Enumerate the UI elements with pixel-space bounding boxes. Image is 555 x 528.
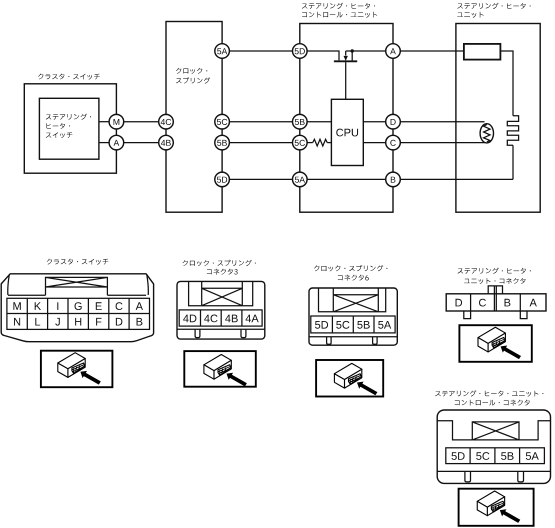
cluster pin grid — [7, 298, 150, 329]
cluster switch box — [24, 84, 116, 173]
label control-unit line1 — [302, 3, 375, 9]
wire 5D to 5A — [229, 178, 293, 180]
steering heater switch box — [39, 98, 99, 159]
clock connector6 icon — [334, 363, 377, 395]
control connector pin grid — [446, 448, 545, 464]
label control conn line2 — [455, 400, 530, 406]
conn3 pin 4C — [204, 315, 217, 323]
heater connector bottom tabs — [464, 311, 527, 319]
clock connector3 bottom band — [177, 329, 265, 337]
label heater-unit line2 — [457, 12, 484, 18]
cluster connector icon — [58, 353, 101, 385]
wire D to thermistor — [400, 121, 485, 123]
cluster pin J — [55, 318, 60, 326]
heater connector top tab — [488, 286, 502, 294]
wire 5B to CPU — [307, 121, 332, 123]
cluster pin K — [35, 302, 41, 310]
conn6 pin 5B — [357, 321, 370, 329]
cluster pin A — [136, 302, 143, 310]
transistor Q1 — [334, 51, 357, 61]
cluster pin H — [75, 318, 81, 326]
cluster connector body — [1, 274, 153, 342]
heater connector icon box — [459, 325, 531, 362]
clock connector6 icon box — [316, 360, 383, 397]
control conn pin 5B — [501, 452, 514, 460]
label heater conn line1 — [458, 268, 531, 274]
wire 5B to 5C — [229, 142, 293, 144]
heater connector icon — [478, 327, 521, 359]
cluster pin N — [14, 318, 20, 326]
wire switch to M — [99, 121, 110, 123]
cluster pin I — [57, 302, 58, 310]
conn6 pin 5D — [315, 321, 328, 329]
wire resistor to element — [500, 51, 513, 116]
cluster pin C — [116, 302, 123, 310]
wire CPU to D — [363, 121, 386, 123]
clock spring box — [166, 22, 222, 213]
resistor R1 — [313, 139, 328, 146]
label control conn line1 — [435, 390, 543, 396]
label clock conn6 line2 — [338, 275, 369, 281]
pin C control — [386, 135, 401, 150]
clock connector6 pin grid — [311, 316, 395, 333]
clock connector6 body — [309, 288, 397, 345]
control conn pin 5A — [526, 452, 539, 460]
pin 5D control — [293, 44, 308, 59]
cluster pin F — [96, 318, 101, 326]
clock connector3 icon — [204, 355, 247, 387]
clock connector6 key X-box — [333, 288, 378, 312]
label clock line2 — [176, 77, 210, 83]
cluster connector band — [8, 275, 149, 296]
pin B control — [386, 172, 401, 187]
clock connector6 shoulders — [319, 288, 386, 312]
clock connector3 shoulders — [189, 281, 253, 305]
heater conn pin B — [505, 299, 511, 307]
control connector key X-box — [472, 422, 519, 440]
wire 5C to resistor — [307, 142, 313, 144]
cluster pin M — [13, 302, 20, 310]
label clock conn3 line2 — [207, 269, 238, 275]
pin D control — [386, 114, 401, 129]
cluster pin B — [137, 318, 143, 326]
control connector bottom band — [437, 471, 550, 482]
junction dot — [351, 49, 354, 52]
wire A to 4B — [123, 142, 159, 144]
pin 5A clock — [215, 44, 230, 59]
wire transistor to CPU — [345, 62, 347, 99]
wire C to thermistor — [400, 142, 485, 144]
pin 5B clock — [215, 135, 230, 150]
label clock conn6 line1 — [314, 265, 387, 271]
cluster connector icon box — [41, 351, 113, 388]
heater unit box — [456, 24, 540, 213]
clock connector6 bottom band — [309, 337, 397, 345]
pin 5C clock — [215, 114, 230, 129]
heater connector body — [446, 294, 546, 311]
wire 5C to 5B — [229, 121, 293, 123]
wire element down — [512, 145, 514, 179]
cluster pin L — [35, 318, 40, 326]
thermistor TH1 — [480, 124, 493, 143]
wire 5D to transistor — [307, 51, 339, 60]
label steering line3 — [46, 132, 73, 138]
cluster pin E — [96, 302, 102, 310]
wire resistor to CPU — [327, 142, 331, 144]
control connector body — [437, 410, 550, 483]
wire B to element — [400, 178, 513, 180]
heater element R3 — [507, 116, 518, 146]
heater conn pin A — [530, 299, 537, 307]
wire 5A to 5D — [229, 50, 293, 52]
CPU box U1 — [331, 99, 363, 165]
clock connector3 body — [177, 281, 265, 339]
pin 4C — [159, 114, 174, 129]
control conn pin 5C — [476, 452, 489, 460]
pin A control — [386, 44, 401, 59]
label cluster connector — [47, 259, 109, 265]
control connector icon box — [459, 489, 534, 526]
CPU label — [336, 129, 358, 137]
pin 5D clock — [215, 172, 230, 187]
conn6 pin 5C — [336, 321, 349, 329]
wire A to heater resistor — [400, 50, 464, 52]
label cluster switch — [38, 74, 100, 80]
heater resistor R2 — [464, 44, 501, 60]
wire CPU to C — [363, 142, 386, 144]
control connector inner profile — [437, 421, 550, 440]
pin 4B — [159, 135, 174, 150]
pin 5C control — [293, 135, 308, 150]
clock connector3 key X-box — [202, 281, 243, 305]
wire M to 4C — [123, 121, 159, 123]
cluster pin G — [75, 302, 82, 310]
heater connector dividers — [471, 286, 521, 311]
cluster connector key X-box — [46, 277, 108, 295]
control connector icon — [477, 491, 520, 523]
pin A cluster — [109, 135, 124, 150]
pin 5A control — [293, 172, 308, 187]
control conn pin 5D — [451, 452, 464, 460]
conn3 pin 4A — [246, 315, 259, 323]
conn6 pin 5A — [378, 321, 391, 329]
label clock line1 — [176, 68, 207, 74]
clock connector3 icon box — [184, 351, 256, 387]
wire transistor to A — [346, 50, 386, 52]
clock connector3 pin grid — [179, 310, 262, 326]
conn3 pin 4D — [183, 315, 196, 323]
label heater conn line2 — [464, 278, 525, 284]
control unit box — [300, 24, 393, 213]
label steering line2 — [47, 123, 71, 129]
pin 5B control — [293, 114, 308, 129]
label steering line1 — [46, 114, 91, 120]
wire switch to A — [99, 142, 110, 144]
conn3 pin 4B — [225, 315, 238, 323]
wire 5A to B — [307, 178, 386, 180]
label control-unit line2 — [302, 12, 377, 18]
heater conn pin D — [456, 299, 463, 307]
pin M — [109, 114, 124, 129]
cluster pin D — [116, 318, 123, 326]
label clock conn3 line1 — [183, 260, 256, 266]
heater conn pin C — [479, 299, 486, 307]
label heater-unit line1 — [457, 3, 530, 9]
